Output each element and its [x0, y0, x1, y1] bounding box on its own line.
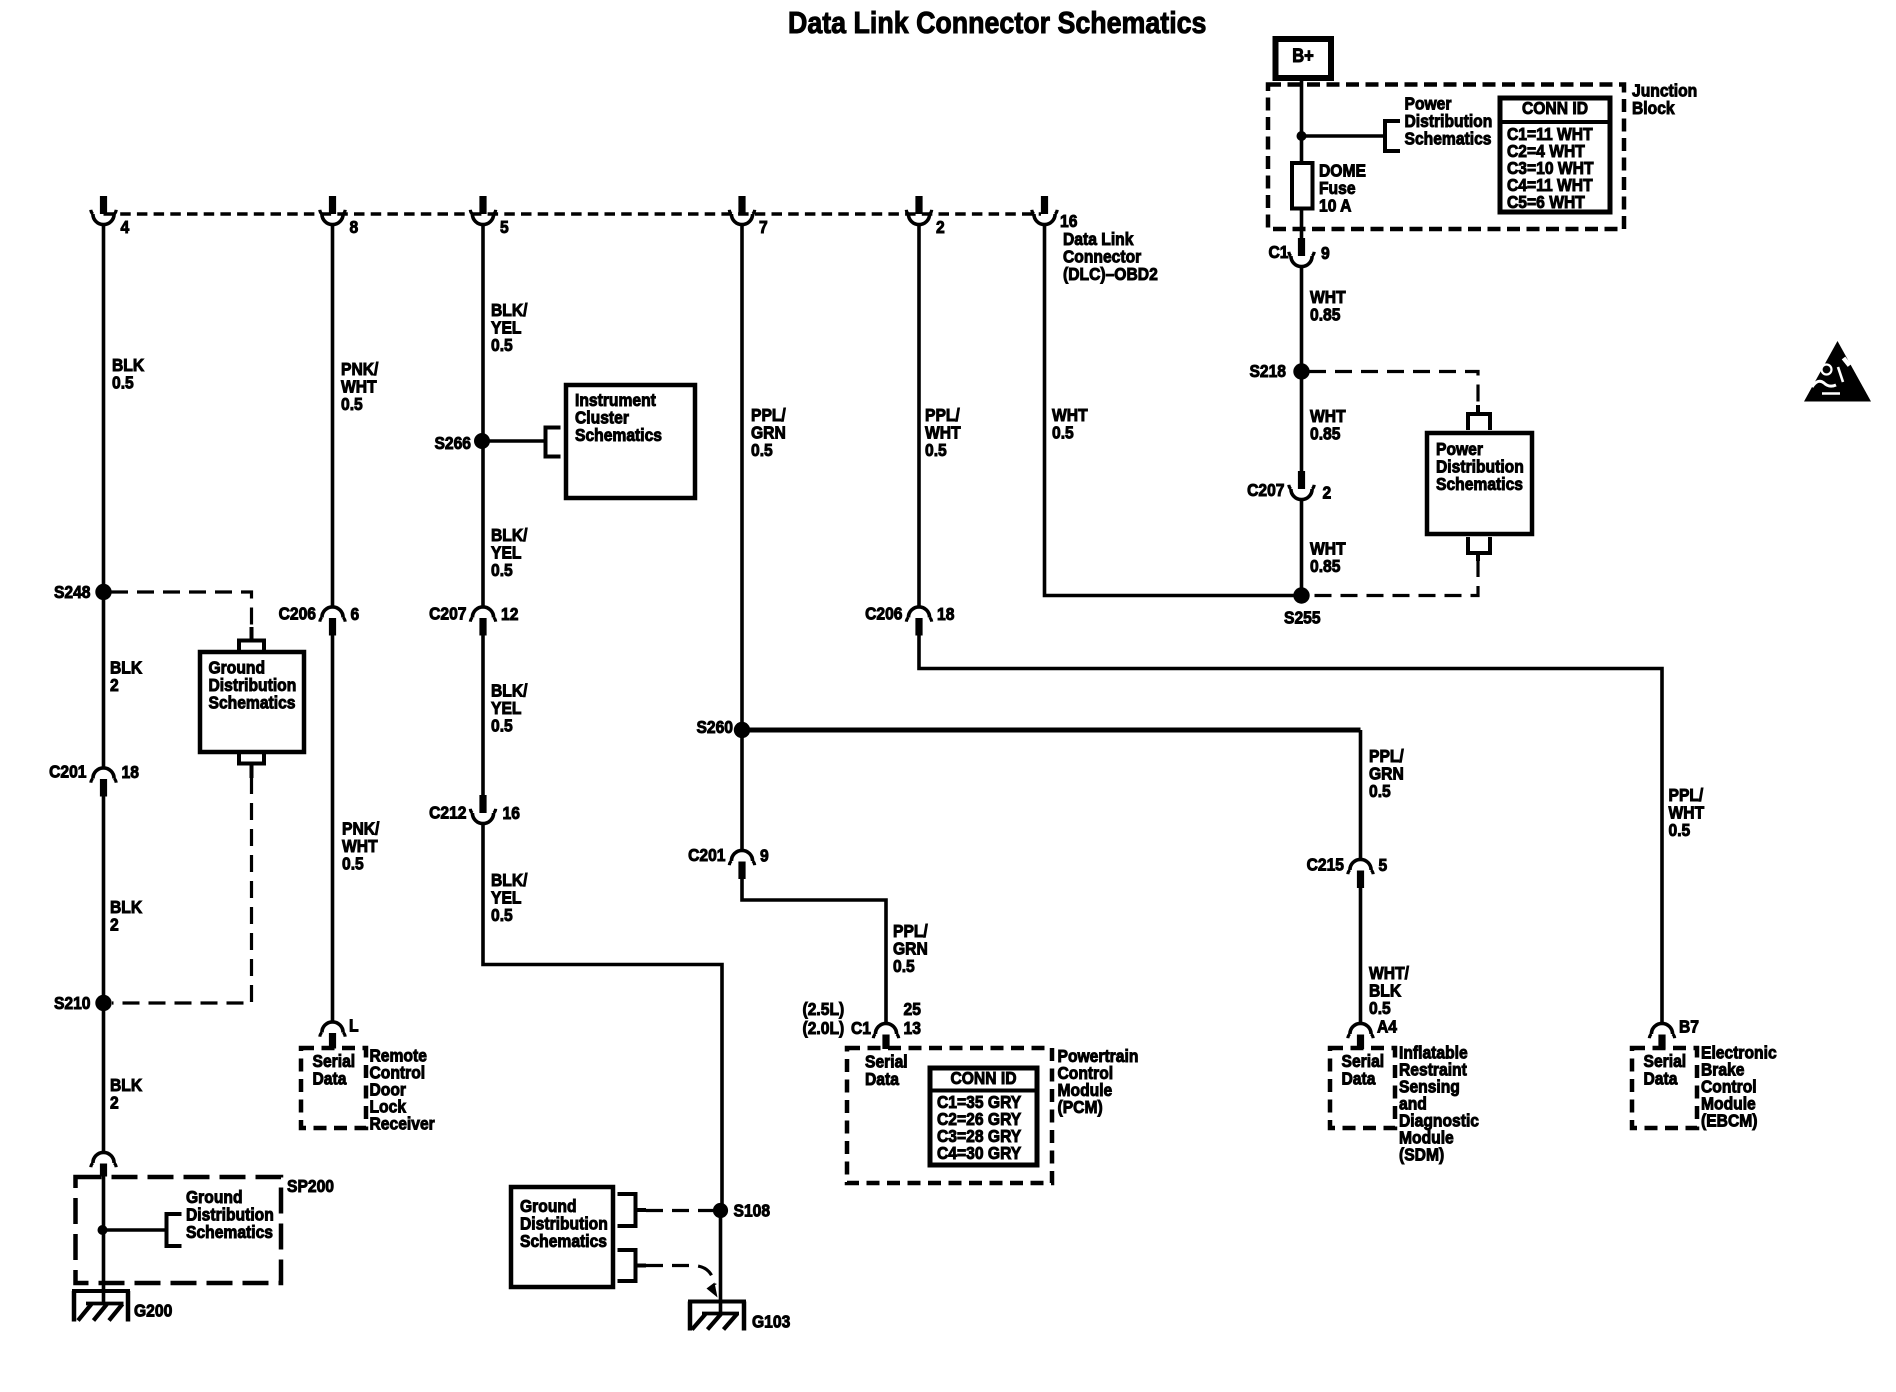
dashed box: splice pack SP200 — [76, 1176, 334, 1283]
wire PPL/GRN from C201 to PCM — [742, 879, 886, 1023]
svg-text:Data: Data — [865, 1069, 899, 1089]
svg-text:C206: C206 — [279, 603, 316, 623]
connector EBCM terminal B7 — [1649, 1016, 1699, 1049]
wire inside SP200 down to G200 — [102, 1176, 106, 1305]
svg-text:Schematics: Schematics — [1405, 128, 1492, 148]
wire WHT from C1 to S218 — [1300, 268, 1304, 372]
svg-text:18: 18 — [937, 604, 954, 624]
svg-text:Schematics: Schematics — [209, 692, 296, 712]
wire BLK/YEL from C207 to C212 — [481, 636, 485, 796]
svg-text:0.85: 0.85 — [1310, 423, 1340, 443]
wire from B+ to DOME fuse — [1300, 78, 1304, 164]
svg-text:0.5: 0.5 — [342, 853, 364, 873]
svg-text:C215: C215 — [1307, 854, 1344, 874]
svg-text:0.5: 0.5 — [1369, 998, 1391, 1018]
svg-text:16: 16 — [503, 803, 520, 823]
svg-text:2: 2 — [1323, 482, 1332, 502]
svg-text:2: 2 — [110, 914, 119, 934]
box: Instrument Cluster Schematics — [566, 385, 695, 498]
splice S248 — [54, 582, 112, 602]
clip out of Power Distribution Schematics box (bottom) — [1468, 537, 1490, 561]
svg-text:0.5: 0.5 — [341, 394, 363, 414]
svg-text:0.5: 0.5 — [491, 905, 513, 925]
wire PNK/WHT from DLC pin 8 to C206 — [331, 226, 335, 607]
connector C215 pin 5 — [1307, 854, 1388, 888]
svg-text:(2.5L): (2.5L) — [803, 999, 845, 1019]
svg-text:0.5: 0.5 — [491, 560, 513, 580]
label BLK/YEL 0.5 (3) — [491, 680, 528, 735]
wire from S108 to ground G103 — [719, 1210, 723, 1315]
wire from SP200 node to clip — [103, 1228, 167, 1232]
svg-text:Data: Data — [1342, 1068, 1376, 1088]
label BLK/YEL 0.5 (1) — [491, 300, 528, 355]
wire from S266 to Instrument Cluster ref — [482, 439, 546, 443]
ground G103 — [688, 1302, 790, 1332]
svg-text:C201: C201 — [688, 845, 725, 865]
label PPL/GRN 0.5 (upper) — [751, 405, 786, 460]
svg-text:(EBCM): (EBCM) — [1701, 1110, 1758, 1130]
splice S218 — [1249, 361, 1309, 381]
node inside SP200 — [98, 1225, 108, 1235]
label PPL/GRN 0.5 (lower) — [893, 921, 928, 976]
label PPL/WHT 0.5 (EBCM drop) — [1669, 785, 1705, 840]
ground G200 — [72, 1291, 172, 1322]
connector DLC pin 8 — [320, 196, 358, 237]
table: CONN ID (PCM) — [930, 1068, 1037, 1165]
connector C206 pin 6 — [279, 603, 360, 635]
warning triangle icon — [1804, 341, 1871, 402]
label BLK 2 (upper) — [110, 657, 143, 695]
label WHT 0.85 (2) — [1310, 406, 1346, 444]
svg-text:(PCM): (PCM) — [1058, 1097, 1103, 1117]
svg-text:Schematics: Schematics — [520, 1231, 607, 1251]
dashed box: Serial Data (PCM) — [847, 1048, 1052, 1183]
svg-text:Schematics: Schematics — [575, 425, 662, 445]
wire PNK/WHT from C206 to Remote Control Door Lock Receiver — [331, 636, 335, 1022]
connector DLC pin 4 — [91, 196, 130, 237]
label: Data Link Connector (DLC)-OBD2 — [1063, 229, 1158, 284]
label PNK/WHT 0.5 (lower) — [342, 818, 380, 873]
wire BLK from C201 to S210 and SP200 — [102, 796, 106, 1152]
svg-text:0.5: 0.5 — [925, 440, 947, 460]
wire: DLC dashed bus line — [104, 212, 1042, 215]
svg-text:A4: A4 — [1377, 1016, 1398, 1036]
svg-text:(2.0L): (2.0L) — [803, 1018, 845, 1038]
splice S255 — [1284, 587, 1321, 627]
battery feed B+ — [1276, 39, 1332, 78]
label PPL/WHT 0.5 (upper) — [925, 405, 961, 460]
svg-text:B+: B+ — [1292, 45, 1314, 66]
box: Ground Distribution Schematics (left) — [200, 652, 304, 752]
svg-text:Schematics: Schematics — [1436, 474, 1523, 494]
splice S210 — [54, 993, 112, 1013]
svg-text:S248: S248 — [54, 582, 91, 602]
clip into Instrument Cluster Schematics box — [546, 428, 561, 457]
label: Inflatable Restraint Sensing and Diagnostic Module (SDM) — [1399, 1042, 1479, 1164]
wire WHT from C207 to S255 — [1300, 501, 1304, 596]
dashed box: Serial Data (Remote Control Door Lock Receiver) — [301, 1048, 366, 1128]
wire BLK/YEL from DLC pin 5 to C207 — [481, 226, 485, 607]
connector DLC pin 7 — [729, 196, 767, 237]
svg-text:Block: Block — [1632, 98, 1675, 118]
svg-text:5: 5 — [1379, 855, 1388, 875]
clip into Ground Distribution Schematics box (top) — [239, 627, 264, 653]
title: Data Link Connector Schematics — [788, 6, 1206, 40]
label WHT 0.5 — [1052, 405, 1088, 443]
label WHT/BLK 0.5 — [1369, 963, 1409, 1018]
svg-text:0.5: 0.5 — [751, 440, 773, 460]
splice S108 — [713, 1200, 770, 1220]
wire PPL/WHT from DLC pin 2 to C206 — [917, 226, 921, 607]
svg-text:C4=30 GRY: C4=30 GRY — [937, 1143, 1021, 1163]
svg-text:L: L — [349, 1015, 359, 1035]
svg-text:C1: C1 — [851, 1018, 871, 1038]
svg-text:13: 13 — [904, 1018, 921, 1038]
svg-text:S260: S260 — [696, 717, 733, 737]
svg-text:C201: C201 — [49, 761, 86, 781]
wire BLK/YEL from C212 down and over to S108 — [483, 825, 722, 1211]
connector C207 pin 12 — [429, 603, 518, 635]
connector PCM C1 pin 25/13 — [803, 999, 921, 1049]
svg-text:C207: C207 — [1247, 480, 1284, 500]
connector C212 pin 16 — [429, 795, 520, 824]
svg-text:8: 8 — [350, 217, 359, 237]
clip from Ground Distribution box toward G103 — [618, 1250, 647, 1281]
fuse DOME 10 A — [1292, 160, 1366, 215]
svg-text:CONN ID: CONN ID — [1522, 98, 1588, 118]
dashed box: Serial Data (EBCM) — [1632, 1048, 1697, 1128]
node to Power Distribution Schematics ref — [1297, 131, 1386, 141]
svg-text:S210: S210 — [54, 993, 91, 1013]
svg-text:Schematics: Schematics — [186, 1222, 273, 1242]
label WHT 0.85 (3) — [1310, 538, 1346, 576]
svg-text:0.5: 0.5 — [491, 715, 513, 735]
wire WHT from S218 to C207 — [1300, 372, 1304, 471]
svg-text:9: 9 — [1321, 243, 1330, 263]
svg-text:G103: G103 — [752, 1311, 790, 1331]
wire PPL/GRN from DLC pin 7 to C201 — [740, 226, 744, 850]
label: Ground Distribution Schematics (inside SP200) — [186, 1187, 274, 1242]
clip: Ground Distribution Schematics ref inside SP200 — [167, 1214, 182, 1246]
connector C1 pin 9 — [1268, 238, 1329, 267]
table: CONN ID (junction block) — [1500, 98, 1610, 212]
svg-text:2: 2 — [936, 217, 945, 237]
svg-text:C5=6 WHT: C5=6 WHT — [1507, 192, 1585, 212]
svg-text:B7: B7 — [1679, 1016, 1699, 1036]
label: Remote Control Door Lock Receiver — [370, 1045, 436, 1133]
label: Junction Block — [1632, 80, 1697, 118]
svg-text:9: 9 — [760, 845, 769, 865]
clip out of Ground Distribution Schematics box (bottom) — [239, 752, 264, 779]
connector into splice pack SP200 — [91, 1152, 116, 1176]
svg-text:6: 6 — [351, 604, 360, 624]
svg-text:(SDM): (SDM) — [1399, 1144, 1444, 1164]
label: Power Distribution Schematics (junction block) — [1405, 93, 1493, 148]
label BLK 2 (lower) — [110, 1075, 143, 1113]
svg-text:7: 7 — [759, 217, 768, 237]
wire WHT from DLC pin 16 over to S255 — [1045, 226, 1303, 596]
clip from Ground Distribution box to S108 — [618, 1194, 647, 1226]
svg-text:4: 4 — [121, 217, 130, 237]
svg-text:0.5: 0.5 — [112, 372, 134, 392]
svg-text:S108: S108 — [734, 1200, 771, 1220]
wire PPL/WHT from C206 over to EBCM — [919, 636, 1662, 1024]
svg-text:S255: S255 — [1284, 607, 1321, 627]
splice S266 — [434, 433, 490, 453]
svg-text:5: 5 — [500, 217, 509, 237]
svg-text:Data: Data — [313, 1068, 347, 1088]
connector C207 pin 2 — [1247, 471, 1331, 503]
svg-text:0.5: 0.5 — [1669, 820, 1691, 840]
label BLK/YEL 0.5 (2) — [491, 525, 528, 580]
svg-text:(DLC)–OBD2: (DLC)–OBD2 — [1063, 264, 1158, 284]
svg-text:0.5: 0.5 — [1369, 781, 1391, 801]
label: Electronic Brake Control Module (EBCM) — [1701, 1042, 1777, 1130]
svg-text:C207: C207 — [429, 603, 466, 623]
svg-text:SP200: SP200 — [287, 1176, 334, 1196]
box: Ground Distribution Schematics (bottom) — [511, 1187, 613, 1287]
dashed net from Power Distribution box down to S255 — [1310, 560, 1478, 596]
connector DLC pin 16 — [1032, 196, 1078, 231]
svg-text:CONN ID: CONN ID — [950, 1068, 1016, 1088]
svg-text:2: 2 — [110, 675, 119, 695]
wire BLK from DLC pin 4 down to C201 — [102, 226, 106, 767]
dashed net from S248 to Ground Distribution Schematics ref — [111, 592, 252, 628]
svg-text:0.5: 0.5 — [1052, 422, 1074, 442]
connector C201 pin 18 — [49, 761, 139, 796]
svg-text:0.85: 0.85 — [1310, 556, 1340, 576]
splice S260 — [696, 717, 750, 738]
clip: Power Distribution Schematics ref (junction block) — [1385, 121, 1400, 151]
connector DLC pin 5 — [470, 196, 508, 237]
svg-text:Data Link Connector Schematics: Data Link Connector Schematics — [788, 6, 1206, 40]
wire WHT/BLK from C215 to SDM — [1359, 888, 1363, 1023]
label: Powertrain Control Module (PCM) — [1058, 1046, 1139, 1117]
wire serial data trunk from S260 to C215 branch — [742, 730, 1361, 859]
dashed net from S218 to Power Distribution Schematics box — [1309, 372, 1478, 407]
label BLK 0.5 — [112, 355, 145, 393]
dashed box: Serial Data (SDM) — [1330, 1048, 1395, 1128]
dashed box: Junction Block — [1268, 85, 1624, 230]
label PPL/GRN 0.5 (branch to SDM) — [1369, 746, 1404, 801]
clip into Power Distribution Schematics box (top) — [1468, 405, 1490, 430]
wire from fuse to C1 — [1300, 209, 1304, 239]
connector SDM terminal A4 — [1348, 1016, 1398, 1049]
connector DLC pin 2 — [906, 196, 944, 237]
label BLK/YEL 0.5 (4) — [491, 870, 528, 925]
svg-text:18: 18 — [122, 762, 139, 782]
svg-text:Data: Data — [1644, 1068, 1678, 1088]
svg-text:2: 2 — [110, 1092, 119, 1112]
svg-text:12: 12 — [501, 604, 518, 624]
svg-text:C206: C206 — [865, 603, 902, 623]
svg-text:10 A: 10 A — [1319, 195, 1351, 215]
connector C201 pin 9 — [688, 845, 769, 879]
label PNK/WHT 0.5 (upper) — [341, 359, 379, 414]
label BLK 2 (middle) — [110, 897, 143, 935]
svg-text:Receiver: Receiver — [370, 1113, 436, 1133]
svg-text:S266: S266 — [434, 433, 471, 453]
svg-text:C1: C1 — [1268, 242, 1288, 262]
svg-text:25: 25 — [904, 999, 921, 1019]
svg-text:0.85: 0.85 — [1310, 304, 1340, 324]
box: Power Distribution Schematics (right) — [1427, 433, 1532, 534]
connector C206 pin 18 — [865, 603, 954, 635]
svg-text:S218: S218 — [1249, 361, 1286, 381]
svg-text:C212: C212 — [429, 802, 466, 822]
label WHT 0.85 (1) — [1310, 287, 1346, 325]
svg-text:0.5: 0.5 — [893, 956, 915, 976]
svg-text:G200: G200 — [134, 1300, 172, 1320]
svg-text:0.5: 0.5 — [491, 335, 513, 355]
dashed net from Ground Distribution ref down to S210 — [112, 777, 252, 1003]
dashed net from clip to S108 — [646, 1209, 714, 1212]
connector terminal L at Remote Control Door Lock Receiver — [320, 1015, 359, 1048]
dashed net with arrow toward G103 — [646, 1266, 718, 1298]
